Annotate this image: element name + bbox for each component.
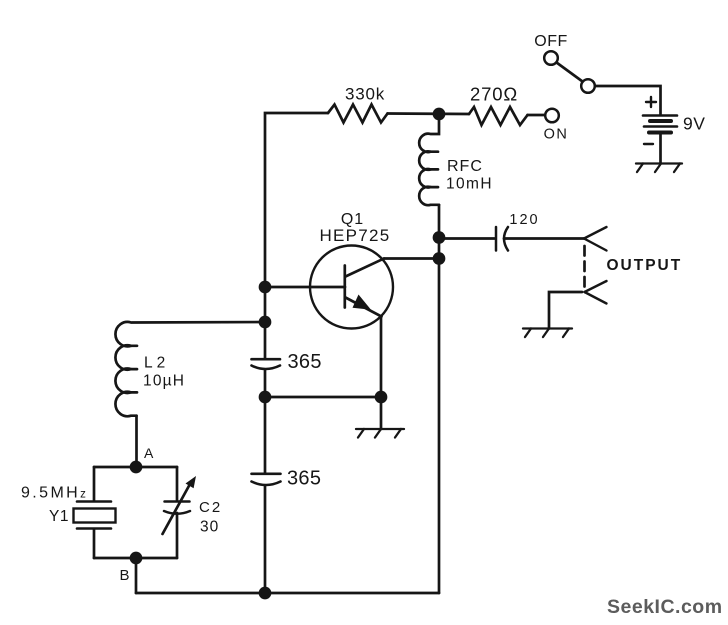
wire to capacitor 120 bbox=[439, 237, 495, 240]
shield dashed line bbox=[583, 246, 586, 289]
wire to ON contact bbox=[528, 114, 546, 117]
wire capacitor 120 to output jack bbox=[504, 237, 584, 240]
transistor Q1 emitter lead bbox=[346, 298, 382, 317]
capacitor 120 straight plate bbox=[495, 227, 498, 251]
svg-text:9V: 9V bbox=[683, 114, 705, 134]
wire emitter to ground bbox=[380, 397, 383, 429]
node junction L2 tap bbox=[260, 317, 270, 327]
wire right bus bbox=[438, 205, 441, 593]
node junction bottom bbox=[260, 588, 270, 598]
crystal Y1 top plate bbox=[77, 500, 111, 503]
wire L2 to node A bbox=[135, 416, 138, 467]
wire C2 bottom lead bbox=[176, 513, 179, 558]
svg-text:RFC: RFC bbox=[447, 158, 483, 175]
node junction at 120 cap feed bbox=[434, 233, 444, 243]
node B junction bbox=[131, 553, 141, 563]
transistor Q1 body circle bbox=[310, 246, 393, 329]
wire crystal bottom lead bbox=[93, 530, 96, 559]
transistor Q1 collector lead bbox=[346, 259, 385, 277]
svg-text:OFF: OFF bbox=[534, 33, 568, 50]
wire tank loop bottom bbox=[94, 557, 177, 560]
wire emitter down bbox=[380, 317, 383, 398]
node junction emitter row right bbox=[376, 392, 386, 402]
battery 9V plate long 2 bbox=[644, 125, 677, 128]
ground battery bbox=[636, 164, 682, 173]
svg-text:SeekIC.com: SeekIC.com bbox=[607, 596, 723, 618]
wire node B down bbox=[135, 558, 138, 593]
transistor Q1 base bar bbox=[343, 266, 346, 308]
wire left bus capacitor gap segment bbox=[264, 370, 267, 474]
battery 9V plate long 1 bbox=[643, 114, 677, 117]
connector output hot fork bbox=[584, 227, 607, 251]
switch S1 common contact bbox=[581, 79, 595, 93]
switch S1 OFF contact bbox=[544, 51, 558, 65]
svg-text:10mH: 10mH bbox=[446, 176, 493, 193]
svg-text:10µH: 10µH bbox=[143, 373, 185, 390]
battery 9V plate short 2 bbox=[649, 131, 671, 135]
wire battery to ground bbox=[659, 134, 662, 164]
node junction base bbox=[260, 282, 270, 292]
wire switch to battery bbox=[595, 86, 661, 114]
svg-text:B: B bbox=[120, 567, 130, 584]
resistor 330k bbox=[328, 105, 388, 123]
switch S1 arm bbox=[557, 63, 583, 82]
inductor RFC coil bbox=[419, 114, 439, 205]
capacitor 365 lower straight plate bbox=[252, 472, 281, 475]
svg-text:120: 120 bbox=[509, 212, 539, 228]
wire left bus top segment bbox=[265, 113, 328, 358]
capacitor 120 curved plate bbox=[504, 227, 508, 251]
wire top bus to 270 resistor bbox=[388, 112, 470, 115]
wire L2 top bbox=[132, 321, 265, 324]
resistor 270ohm bbox=[469, 107, 528, 125]
crystal Y1 body bbox=[74, 509, 116, 523]
svg-text:365: 365 bbox=[288, 351, 322, 373]
svg-text:30: 30 bbox=[200, 519, 219, 536]
battery 9V minus label bbox=[644, 143, 653, 145]
svg-text:365: 365 bbox=[287, 468, 321, 490]
battery 9V plate short 1 bbox=[650, 119, 671, 123]
connector output shield fork bbox=[585, 281, 607, 304]
transistor Q1 emitter arrow bbox=[353, 295, 372, 310]
ground emitter bbox=[356, 429, 404, 438]
svg-text:Y1: Y1 bbox=[49, 508, 69, 525]
switch S1 ON contact bbox=[545, 109, 559, 123]
svg-text:270Ω: 270Ω bbox=[470, 84, 518, 105]
wire base bbox=[265, 286, 345, 289]
battery 9V plus label bbox=[646, 97, 656, 107]
node junction at RFC top bbox=[434, 109, 444, 119]
node A junction bbox=[131, 462, 141, 472]
wire emitter row bbox=[265, 396, 381, 399]
capacitor C2 bottom plate bbox=[164, 511, 190, 514]
svg-text:L2: L2 bbox=[144, 355, 169, 372]
wire shield to ground bbox=[549, 292, 582, 329]
wire crystal top lead bbox=[93, 467, 96, 501]
capacitor C2 top plate bbox=[165, 500, 190, 503]
wire left bus bottom segment bbox=[264, 486, 267, 594]
svg-text:OUTPUT: OUTPUT bbox=[607, 257, 683, 274]
inductor L2 coil bbox=[115, 322, 136, 416]
svg-text:ON: ON bbox=[544, 127, 569, 143]
capacitor 365 upper curved plate bbox=[252, 366, 281, 370]
crystal Y1 bottom plate bbox=[77, 527, 111, 530]
svg-text:HEP725: HEP725 bbox=[319, 226, 390, 245]
capacitor 365 upper straight plate bbox=[252, 358, 281, 361]
svg-text:A: A bbox=[144, 445, 154, 461]
svg-text:C2: C2 bbox=[199, 499, 222, 516]
capacitor C2 arrow bbox=[163, 484, 191, 534]
node junction at collector bbox=[434, 254, 444, 264]
node junction emitter row left bbox=[260, 392, 270, 402]
wire bottom bus bbox=[136, 592, 439, 595]
wire collector to right bus bbox=[384, 257, 439, 260]
svg-text:9.5MHz: 9.5MHz bbox=[21, 485, 86, 502]
wire C2 top lead bbox=[176, 467, 179, 500]
wire tank loop top bbox=[94, 466, 177, 469]
capacitor 365 lower curved plate bbox=[252, 482, 281, 486]
capacitor C2 arrow head bbox=[186, 476, 197, 488]
svg-text:330k: 330k bbox=[345, 85, 385, 104]
ground output bbox=[523, 329, 572, 338]
